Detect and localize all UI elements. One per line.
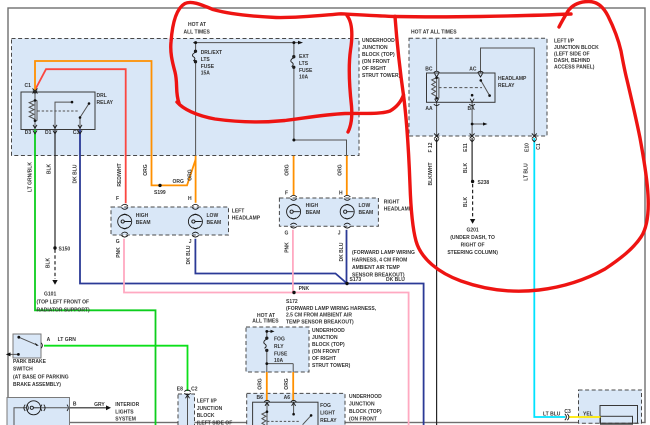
- svg-text:DK BLU: DK BLU: [73, 164, 79, 183]
- svg-text:BEAM: BEAM: [207, 220, 222, 226]
- svg-text:(ON FRONT: (ON FRONT: [362, 59, 390, 65]
- svg-text:C1: C1: [536, 143, 542, 150]
- svg-text:10A: 10A: [274, 358, 284, 364]
- svg-text:TEMP SENSOR BREAKOUT): TEMP SENSOR BREAKOUT): [286, 319, 354, 325]
- svg-text:RIGHT: RIGHT: [384, 200, 400, 206]
- svg-text:G101: G101: [44, 292, 56, 298]
- svg-text:C3: C3: [73, 130, 80, 136]
- svg-text:S172: S172: [286, 299, 298, 305]
- svg-text:LT BLU: LT BLU: [524, 163, 530, 181]
- svg-text:RADIATOR SUPPORT): RADIATOR SUPPORT): [37, 308, 90, 314]
- svg-text:FOG: FOG: [320, 403, 331, 409]
- svg-text:ORG: ORG: [187, 169, 193, 181]
- svg-text:LIGHT: LIGHT: [320, 411, 335, 417]
- svg-text:HOT AT ALL TIMES: HOT AT ALL TIMES: [411, 30, 457, 36]
- svg-text:JUNCTION: JUNCTION: [197, 406, 223, 412]
- svg-text:LEFT I/P: LEFT I/P: [554, 39, 575, 45]
- svg-text:RELAY: RELAY: [320, 418, 337, 424]
- svg-text:HEADLAMP: HEADLAMP: [384, 207, 413, 213]
- svg-text:BLOCK: BLOCK: [197, 413, 215, 419]
- svg-text:HEADLAMP: HEADLAMP: [498, 76, 527, 82]
- svg-text:BLK: BLK: [463, 196, 469, 207]
- svg-text:GRY: GRY: [94, 402, 105, 408]
- svg-text:S199: S199: [154, 190, 166, 196]
- svg-text:S173: S173: [350, 277, 362, 283]
- svg-text:ORG: ORG: [284, 378, 290, 390]
- svg-text:D3: D3: [25, 130, 32, 136]
- svg-text:DK BLU: DK BLU: [186, 245, 192, 264]
- svg-text:BLK: BLK: [463, 162, 469, 173]
- svg-text:DRL: DRL: [97, 93, 107, 99]
- svg-text:BC: BC: [425, 66, 433, 72]
- svg-text:(ON FRONT: (ON FRONT: [349, 417, 377, 423]
- svg-text:J: J: [338, 231, 341, 237]
- svg-text:HIGH: HIGH: [306, 203, 319, 209]
- svg-text:STRUT TOWER): STRUT TOWER): [362, 73, 401, 79]
- svg-text:RELAY: RELAY: [498, 83, 515, 89]
- svg-text:BA: BA: [468, 106, 476, 112]
- svg-text:PNK: PNK: [284, 242, 290, 253]
- svg-text:JUNCTION: JUNCTION: [349, 402, 375, 408]
- svg-text:B: B: [73, 402, 77, 408]
- svg-text:LTS: LTS: [299, 61, 309, 67]
- svg-text:DK BLU: DK BLU: [386, 277, 405, 283]
- svg-text:PNK: PNK: [299, 286, 310, 292]
- svg-text:RLY: RLY: [274, 344, 284, 350]
- svg-text:UNDERHOOD: UNDERHOOD: [312, 328, 345, 334]
- svg-text:D1: D1: [45, 130, 52, 136]
- svg-text:G201: G201: [466, 228, 478, 234]
- svg-text:ORG: ORG: [173, 179, 185, 185]
- svg-text:UNDERHOOD: UNDERHOOD: [349, 394, 382, 400]
- svg-text:AA: AA: [425, 106, 433, 112]
- svg-text:LEFT I/P: LEFT I/P: [197, 399, 218, 405]
- svg-text:HIGH: HIGH: [136, 213, 149, 219]
- svg-text:STRUT TOWER): STRUT TOWER): [312, 363, 351, 369]
- svg-text:LOW: LOW: [359, 203, 371, 209]
- svg-text:C2: C2: [191, 387, 198, 393]
- svg-text:F: F: [285, 191, 288, 197]
- svg-text:JUNCTION: JUNCTION: [312, 335, 338, 341]
- svg-text:LT GRN/BLK: LT GRN/BLK: [28, 162, 34, 192]
- svg-text:LIGHTS: LIGHTS: [115, 409, 134, 415]
- svg-text:EXT: EXT: [299, 54, 309, 60]
- svg-text:RELAY: RELAY: [97, 100, 114, 106]
- svg-text:ORG: ORG: [143, 164, 149, 176]
- svg-text:(ON FRONT: (ON FRONT: [312, 349, 340, 355]
- svg-text:OF RIGHT: OF RIGHT: [312, 356, 336, 362]
- svg-text:(AT BASE OF PARKING: (AT BASE OF PARKING: [13, 374, 69, 380]
- svg-text:SYSTEM: SYSTEM: [115, 417, 136, 423]
- svg-text:LOW: LOW: [207, 213, 219, 219]
- svg-text:FUSE: FUSE: [299, 68, 313, 74]
- svg-text:AMBIENT AIR TEMP: AMBIENT AIR TEMP: [352, 265, 401, 271]
- svg-text:10A: 10A: [299, 75, 309, 81]
- svg-text:DRL/EXT: DRL/EXT: [201, 50, 222, 56]
- svg-text:J: J: [189, 239, 192, 245]
- svg-text:(UNDER DASH, TO: (UNDER DASH, TO: [450, 235, 495, 241]
- svg-text:LT BLU: LT BLU: [543, 411, 561, 417]
- svg-text:A: A: [47, 337, 51, 343]
- svg-text:(FORWARD LAMP WIRING: (FORWARD LAMP WIRING: [352, 250, 415, 256]
- svg-text:F: F: [116, 196, 119, 202]
- svg-text:S238: S238: [478, 180, 490, 186]
- svg-text:(LEFT SIDE OF: (LEFT SIDE OF: [197, 420, 233, 425]
- svg-text:S150: S150: [59, 247, 71, 253]
- svg-text:H: H: [339, 191, 343, 197]
- svg-text:LEFT: LEFT: [232, 209, 245, 215]
- svg-text:JUNCTION BLOCK: JUNCTION BLOCK: [554, 45, 599, 51]
- svg-text:OF RIGHT: OF RIGHT: [362, 66, 386, 72]
- svg-text:LTS: LTS: [201, 57, 211, 63]
- svg-text:(TOP LEFT FRONT OF: (TOP LEFT FRONT OF: [37, 300, 90, 306]
- svg-text:ALL TIMES: ALL TIMES: [184, 30, 211, 36]
- svg-text:(FORWARD LAMP WIRING HARNESS,: (FORWARD LAMP WIRING HARNESS,: [286, 306, 377, 312]
- svg-text:FUSE: FUSE: [274, 352, 288, 358]
- svg-text:BLK: BLK: [47, 163, 53, 174]
- svg-text:F 12: F 12: [428, 142, 434, 152]
- svg-text:HOT AT: HOT AT: [188, 22, 206, 28]
- svg-text:(LEFT SIDE OF: (LEFT SIDE OF: [554, 52, 590, 58]
- svg-text:C1: C1: [25, 83, 32, 89]
- svg-text:LT GRN: LT GRN: [58, 337, 77, 343]
- svg-text:BRAKE ASSEMBLY): BRAKE ASSEMBLY): [13, 382, 61, 388]
- svg-text:BLOCK (TOP): BLOCK (TOP): [349, 409, 382, 415]
- svg-text:HEADLAMP: HEADLAMP: [232, 216, 261, 222]
- svg-text:PARK BRAKE: PARK BRAKE: [13, 359, 47, 365]
- svg-text:DASH, BEHIND: DASH, BEHIND: [554, 58, 591, 64]
- svg-text:BEAM: BEAM: [359, 210, 374, 216]
- svg-text:ORG: ORG: [258, 378, 264, 390]
- svg-text:BLOCK (TOP): BLOCK (TOP): [362, 52, 395, 58]
- svg-text:15A: 15A: [201, 71, 211, 77]
- svg-text:E8: E8: [177, 387, 183, 393]
- svg-text:BEAM: BEAM: [136, 220, 151, 226]
- svg-text:INTERIOR: INTERIOR: [115, 402, 139, 408]
- svg-text:E10: E10: [525, 143, 531, 152]
- svg-text:HARNESS, 4 CM FROM: HARNESS, 4 CM FROM: [352, 258, 407, 264]
- svg-text:ACCESS PANEL): ACCESS PANEL): [554, 65, 595, 71]
- svg-text:BLK: BLK: [46, 257, 52, 268]
- svg-text:A6: A6: [284, 395, 291, 401]
- svg-text:RIGHT OF: RIGHT OF: [461, 243, 485, 249]
- svg-text:ORG: ORG: [338, 164, 344, 176]
- svg-text:DK BLU: DK BLU: [339, 242, 345, 261]
- svg-text:FOG: FOG: [274, 337, 285, 343]
- svg-text:G: G: [116, 239, 120, 245]
- svg-text:SWITCH: SWITCH: [13, 367, 33, 373]
- svg-text:C3: C3: [564, 409, 571, 415]
- svg-text:BLK/WHT: BLK/WHT: [428, 162, 434, 185]
- svg-text:G: G: [285, 231, 289, 237]
- svg-text:STEERING COLUMN): STEERING COLUMN): [447, 250, 498, 256]
- svg-text:BLOCK (TOP): BLOCK (TOP): [312, 342, 345, 348]
- svg-text:PNK: PNK: [116, 247, 122, 258]
- svg-text:E11: E11: [463, 143, 469, 152]
- svg-text:JUNCTION: JUNCTION: [362, 45, 388, 51]
- svg-text:AC: AC: [469, 66, 477, 72]
- svg-text:B6: B6: [257, 395, 264, 401]
- svg-text:ALL TIMES: ALL TIMES: [252, 319, 279, 325]
- svg-text:FUSE: FUSE: [201, 64, 215, 70]
- svg-text:BEAM: BEAM: [306, 210, 321, 216]
- svg-text:ORG: ORG: [284, 164, 290, 176]
- svg-text:YEL: YEL: [583, 411, 593, 417]
- svg-text:RED/WHT: RED/WHT: [117, 163, 123, 186]
- svg-text:H: H: [188, 196, 192, 202]
- svg-text:UNDERHOOD: UNDERHOOD: [362, 38, 395, 44]
- svg-text:2.5 CM FROM AMBIENT AIR: 2.5 CM FROM AMBIENT AIR: [286, 313, 352, 319]
